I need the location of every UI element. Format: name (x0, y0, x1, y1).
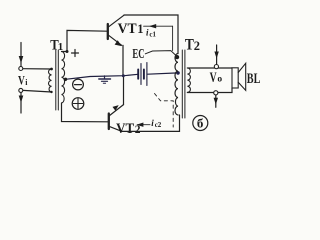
svg-text:V: V (210, 70, 217, 86)
wire input top (23, 68, 52, 70)
T2 core (181, 50, 183, 118)
junction dot emitters (122, 74, 125, 77)
current arrow ic1 loop (144, 24, 173, 51)
svg-text:1: 1 (137, 22, 143, 36)
polarity minus circle (73, 79, 84, 90)
wire battery to T2 center tap (148, 73, 178, 74)
middle wire: T1 center tap to emitters to battery (66, 74, 139, 79)
junction dot T2 primary top (175, 55, 179, 59)
output bottom terminal with arrow (214, 91, 218, 108)
label VT1 (118, 21, 144, 37)
transistor VT2 (109, 76, 124, 132)
svg-text:1: 1 (58, 41, 64, 53)
T1 core (55, 50, 57, 110)
label T2 (185, 36, 200, 53)
svg-text:V: V (18, 72, 25, 87)
label EC (132, 47, 144, 62)
current arrow ic2 dashed loop (136, 94, 173, 128)
label T1 (50, 38, 63, 54)
svg-text:б: б (197, 116, 204, 131)
transformer T1 secondary winding (62, 52, 65, 104)
junction dot primary bottom (50, 91, 52, 93)
junction dot primary top (50, 68, 53, 71)
polarity plus circle (72, 98, 84, 110)
label Vi (18, 72, 28, 87)
label BL (247, 71, 261, 87)
ground (99, 76, 111, 84)
output top wire (187, 67, 232, 69)
output top terminal with arrow (214, 45, 219, 69)
center tap dot T1 (64, 78, 67, 81)
svg-text:VT: VT (118, 21, 137, 37)
svg-text:T: T (185, 36, 194, 53)
top rail: VT1 collector to T2 primary top (124, 15, 178, 54)
label VT2 (116, 121, 141, 137)
transformer T2 secondary winding (187, 68, 190, 92)
center tap dot T2 (176, 71, 180, 75)
svg-text:o: o (217, 75, 222, 85)
label ic1 (146, 27, 157, 38)
wire input bottom (23, 90, 52, 92)
speaker BL (232, 63, 246, 90)
svg-text:2: 2 (194, 39, 200, 53)
plus mark near T1 secondary top (72, 50, 79, 57)
svg-text:2: 2 (135, 124, 141, 136)
battery EC (138, 63, 147, 86)
transformer T2 primary winding (175, 54, 178, 116)
svg-text:c1: c1 (149, 30, 156, 38)
T1 secondary top lead to VT1 base (62, 30, 107, 51)
transistor VT1 (108, 15, 124, 75)
svg-text:EC: EC (132, 47, 144, 62)
transformer T1 primary winding (49, 69, 52, 92)
label ic2 (151, 118, 162, 129)
bottom rail: VT2 collector to T2 primary bottom (122, 115, 180, 131)
svg-text:BL: BL (247, 71, 261, 87)
svg-text:c2: c2 (155, 121, 162, 129)
wire EC to T2 top junction (145, 51, 177, 57)
svg-text:VT: VT (116, 121, 134, 137)
input top terminal lead with arrow (19, 43, 24, 71)
label Vo (210, 70, 223, 86)
figure label (v) (193, 116, 208, 131)
junction dot T1 secondary top (66, 50, 69, 53)
T1 secondary bottom lead to VT2 base (62, 103, 108, 122)
output bottom wire (187, 88, 232, 93)
input bottom terminal with arrow (19, 88, 24, 113)
